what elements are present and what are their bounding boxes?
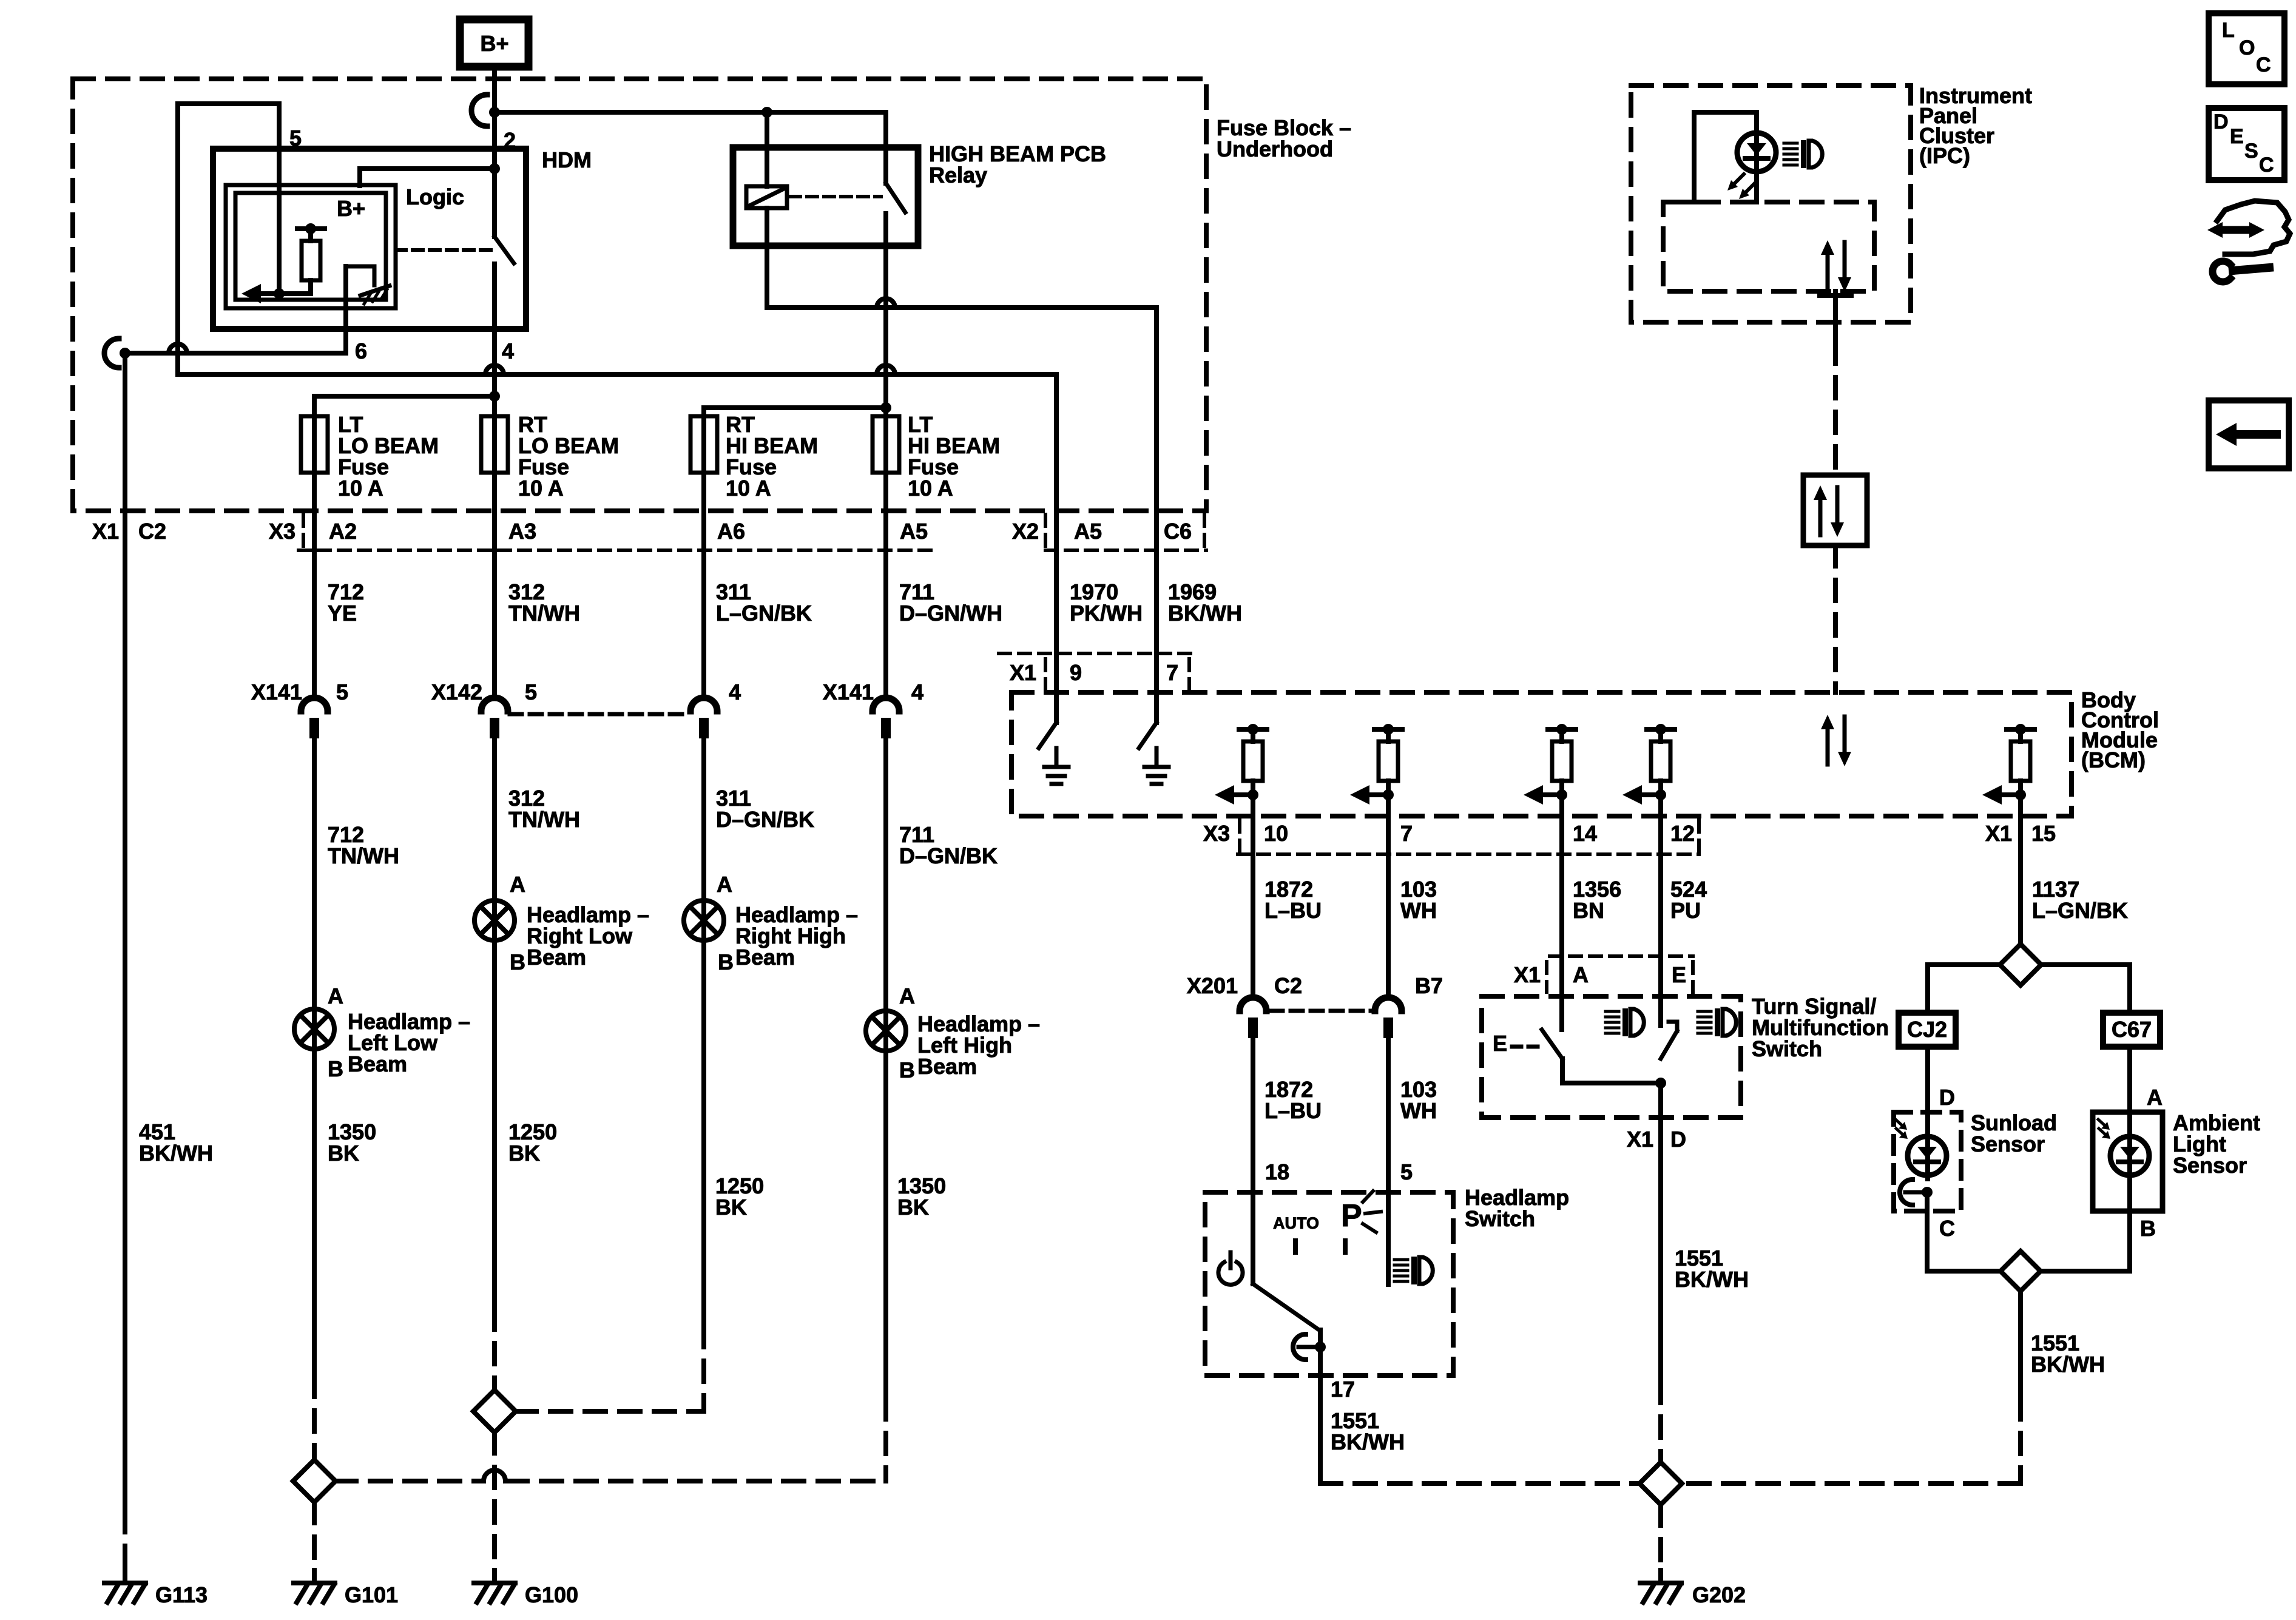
svg-text:D–GN/WH: D–GN/WH [899,601,1002,626]
IPC indicator circuit wires [1694,110,1757,115]
wire: 1356 BN [1559,795,1564,1030]
connector C67 [2103,1013,2160,1047]
dashed wire splice to G202 [1658,1505,1663,1568]
svg-text:TN/WH: TN/WH [508,601,580,626]
switch common contact arc [1293,1334,1306,1360]
svg-text:WH: WH [1400,1098,1437,1123]
fuse LT HI BEAM 10A [873,416,899,473]
label: Fuse Block - Underhood [1217,115,1351,161]
ground G113 [123,1570,127,1583]
wire: relay coil low side [765,112,769,186]
serial data arrows in BCM [1826,727,1830,764]
svg-text:5: 5 [336,680,348,704]
wire: 524 PU [1658,795,1663,1025]
svg-text:TN/WH: TN/WH [328,843,399,868]
svg-text:CJ2: CJ2 [1907,1017,1947,1042]
splice diamond 1350 [293,1460,336,1502]
svg-text:5: 5 [1400,1159,1413,1184]
svg-text:D: D [1670,1127,1686,1152]
svg-text:E: E [2230,125,2244,148]
dashed connector tie [510,712,689,717]
svg-text:5: 5 [289,126,302,150]
serial data arrows in IPC [1826,252,1830,290]
BCM driver output 1356 [1548,727,1576,732]
dashed rail 1551 to G202 splice [1320,1481,1639,1486]
wire: relay switch output to HI BEAM fuses [883,214,888,416]
dashed wire splice to G100 [492,1433,497,1568]
wire: 311 L-GN/BK [701,408,706,698]
svg-text:L–GN/BK: L–GN/BK [2032,898,2128,923]
svg-text:B: B [899,1058,915,1082]
connector X201 B7 [1375,997,1402,1011]
wire: 1970 into BCM [1054,374,1059,723]
svg-text:(IPC): (IPC) [1919,143,1970,168]
svg-text:Switch: Switch [1752,1036,1822,1061]
svg-text:(BCM): (BCM) [2081,748,2146,772]
ground G202 [1658,1570,1663,1583]
sunload internal contact arc [1900,1180,1913,1205]
MFS switch blade low [1542,1030,1562,1059]
splice diamond 1250 [473,1390,516,1433]
svg-text:15: 15 [2031,821,2056,846]
svg-text:B+: B+ [480,31,508,56]
wire: 1551 from headlamp switch [1318,1347,1323,1483]
wire labels circuit row 1 [328,579,364,626]
LED emission arrows [1733,174,1744,185]
svg-text:Switch: Switch [1465,1206,1535,1231]
ground wire labels [139,1119,213,1166]
resistor in HDM logic [297,226,325,231]
svg-text:12: 12 [1670,821,1695,846]
vehicle diagnostic icon [2225,201,2290,254]
svg-text:Beam: Beam [527,945,586,970]
wire: 103 to headlamp switch [1386,1038,1391,1284]
svg-text:A5: A5 [1074,519,1102,544]
svg-text:X142: X142 [431,680,482,704]
svg-text:S: S [2244,140,2258,163]
svg-text:D–GN/BK: D–GN/BK [899,843,998,868]
svg-text:X1: X1 [92,519,119,544]
BCM driver output 524 [1647,727,1675,732]
connector X2 strip [1044,515,1047,547]
svg-text:10 A: 10 A [726,476,771,501]
headlamp right low beam [474,900,515,940]
headlamp right high beam [684,900,724,940]
fuse RT LO BEAM 10A [481,416,508,473]
wire: pin4 branch to LO BEAM fuses [314,394,495,399]
svg-text:PK/WH: PK/WH [1070,601,1143,626]
label Headlamp Switch [1465,1185,1569,1231]
wire: C67 to ambient sensor [2127,1047,2132,1112]
IPC high-beam icon [1784,142,1797,145]
svg-text:A: A [1573,962,1589,987]
svg-text:X1: X1 [1627,1127,1653,1152]
connector X3 output strip [1238,820,1241,851]
svg-text:7: 7 [1166,660,1178,685]
node: HDM pin2 internal junction [489,163,500,174]
connector X141 pin5 [301,698,328,711]
svg-text:C: C [2256,53,2271,76]
svg-text:A: A [899,984,915,1008]
svg-text:X2: X2 [1012,519,1039,544]
MFS common wires [1560,1059,1565,1083]
svg-text:9: 9 [1070,660,1082,685]
Logic box [226,185,396,308]
dashed rail 1250 splice to RT HI [516,1409,704,1414]
svg-text:B: B [328,1056,343,1081]
svg-text:14: 14 [1573,821,1597,846]
wires: sensors to splice [1925,1211,1930,1271]
wire: col C2 451 [123,353,127,1511]
wrench icon [2212,261,2230,282]
signal ground 1970 [1055,748,1059,767]
BCM driver output 1137 [2007,727,2034,732]
BCM switch 1970 [1039,723,1056,748]
dashed wire splice to G101 [312,1502,317,1568]
wire: HDM pin 5 loop [277,104,282,294]
svg-text:5: 5 [525,680,537,704]
svg-text:BK/WH: BK/WH [2031,1352,2105,1377]
instrument panel cluster dashed box [1631,86,1911,322]
svg-text:TN/WH: TN/WH [508,807,580,832]
svg-text:B: B [2140,1216,2156,1241]
headlamp switch dashed box [1205,1192,1453,1375]
HDM module box [213,149,526,329]
svg-text:BN: BN [1573,898,1604,923]
svg-text:C67: C67 [2112,1017,2152,1042]
relay dashed link [790,195,881,198]
wire labels BCM outputs [1264,877,1322,923]
svg-text:G101: G101 [345,1582,398,1607]
wire: 103 WH [1386,795,1391,997]
svg-text:X3: X3 [1203,821,1230,846]
label Body Control Module (BCM) [2081,687,2159,772]
svg-text:P: P [1341,1198,1362,1234]
svg-text:BK: BK [715,1195,747,1220]
dashed serial data wire [1833,343,1838,475]
svg-text:A: A [2147,1085,2163,1110]
ground G101 [312,1570,317,1583]
label Instrument Panel Cluster (IPC) [1919,83,2032,168]
terminal arc at B+ junction [471,95,487,126]
svg-text:BK/WH: BK/WH [1331,1429,1405,1454]
BCM driver output 103 [1374,727,1402,732]
svg-text:D: D [2213,110,2229,133]
connector X201 C2 [1240,997,1266,1011]
svg-text:HDM: HDM [542,147,592,172]
label Turn Signal/Multifunction Switch [1752,994,1889,1061]
dashed wire MFS output to splice [1658,1382,1663,1462]
wire: 712 TN/WH to left low lamp [312,738,317,1376]
wire labels lower 1872/103 [1264,1077,1322,1123]
wire labels circuit row 2 [328,822,399,868]
svg-text:BK: BK [897,1195,929,1220]
wire label 1551 BK/WH right [1675,1246,1749,1292]
ambient photodiode [2127,1112,2132,1211]
svg-text:17: 17 [1331,1377,1355,1402]
node: relay coil tap [761,107,772,118]
svg-text:X3: X3 [269,519,295,544]
svg-text:B+: B+ [337,196,365,221]
wire: 1137 L-GN/BK [2018,795,2023,944]
fuse RT HI BEAM 10A [690,416,717,473]
svg-text:C6: C6 [1164,519,1192,544]
svg-text:6: 6 [355,339,367,363]
arrow: logic output left [262,291,279,296]
MFS low beam icon [1606,1010,1619,1013]
dashed serial data wire to BCM [1833,545,1838,692]
dashed rail 1350 splice to LT HI [336,1479,482,1483]
MFS switch blade high [1661,1031,1677,1059]
svg-text:C: C [2259,154,2274,177]
svg-text:4: 4 [502,339,514,363]
svg-text:B: B [510,950,525,974]
svg-text:10 A: 10 A [338,476,383,501]
splice diamond sensors 1551 [2001,1251,2041,1291]
headlamp switch blade [1253,1284,1319,1330]
sunload photodiode [1925,1112,1930,1179]
svg-text:A2: A2 [329,519,357,544]
serial data connector box [1803,475,1867,545]
svg-text:Logic: Logic [406,184,464,209]
svg-text:4: 4 [911,680,923,704]
svg-text:AUTO: AUTO [1273,1214,1319,1232]
svg-text:D: D [1939,1085,1955,1110]
svg-text:X1: X1 [1985,821,2012,846]
connector X142 pin5 [481,698,508,711]
wire: loop bus to A5 column [178,372,1056,377]
wire: HDM pin 4 output [492,264,497,396]
connector X3 strip [302,515,305,547]
dashed wire 1250 to splice [492,1309,497,1390]
wire: 711 D-GN/WH [883,408,888,698]
BCM switch 1969 [1139,723,1156,748]
wire: CJ2 to sunload sensor [1925,1047,1930,1112]
node: HDM logic junction [274,288,285,299]
svg-text:Beam: Beam [735,945,795,970]
dashed connector tie X201 [1271,1009,1371,1013]
wire: MFS output [1658,1083,1663,1382]
svg-text:L–BU: L–BU [1264,1098,1322,1123]
headlamp on icon [1394,1258,1408,1261]
svg-text:O: O [2239,36,2255,59]
svg-text:Beam: Beam [917,1054,977,1079]
svg-text:BK: BK [328,1141,359,1166]
inner B+ box [235,193,386,300]
wire: splice to C67 [2041,962,2130,967]
svg-text:C2: C2 [138,519,166,544]
svg-text:Relay: Relay [929,163,987,187]
svg-text:G100: G100 [525,1582,578,1607]
MFS high beam icon [1698,1010,1711,1013]
ground G100 [492,1570,497,1583]
connector X1 9/7 strip [999,652,1191,655]
svg-text:B: B [718,950,734,974]
DESC icon box [2209,108,2284,180]
fuse block underhood dashed box [73,79,1206,511]
svg-text:B7: B7 [1415,973,1443,998]
turn signal multifunction switch dashed box [1482,996,1741,1118]
wire: HDM pin 6 internal ground loop [346,265,374,269]
svg-text:BK/WH: BK/WH [139,1141,213,1166]
sunload sensor dashed box [1894,1112,1961,1211]
svg-text:YE: YE [328,601,357,626]
wire: 1551 BK/WH sensors [2018,1291,2023,1399]
svg-text:A5: A5 [900,519,928,544]
splice diamond 1551 [1639,1462,1682,1505]
svg-text:10 A: 10 A [908,476,953,501]
splice diamond 1137 [2000,944,2041,985]
svg-text:G202: G202 [1692,1582,1746,1607]
B+ power terminal [460,19,528,67]
signal ground 1969 [1155,748,1159,767]
relay coil [746,186,787,208]
svg-text:Sensor: Sensor [2173,1153,2247,1178]
svg-text:WH: WH [1400,898,1437,923]
wire: 1969 column down [1154,308,1159,723]
svg-text:X141: X141 [823,680,874,704]
svg-text:L–GN/BK: L–GN/BK [716,601,812,626]
svg-text:A: A [328,984,343,1008]
IPC serial stub [1820,293,1851,298]
wire: 311 D-GN/BK to right high lamp [701,738,706,1326]
svg-text:BK/WH: BK/WH [1168,601,1242,626]
svg-text:10: 10 [1264,821,1288,846]
power off icon [1218,1262,1243,1284]
wire: 312 TN/WH [492,396,497,698]
wire: 1872 to headlamp switch [1251,1038,1255,1284]
svg-text:C2: C2 [1274,973,1302,998]
svg-text:X141: X141 [251,680,302,704]
svg-text:BK: BK [508,1141,540,1166]
signal ground in HDM [360,286,390,295]
wire: 712 YE [312,396,317,698]
wire: 1872 L-BU [1251,795,1255,997]
fuse LT LO BEAM 10A [301,416,328,473]
svg-text:L: L [2222,19,2235,42]
svg-text:X1: X1 [1010,660,1036,685]
IPC high-beam indicator LED [1737,133,1776,172]
dashed wire to G202 rail [2018,1399,2023,1483]
svg-text:L–BU: L–BU [1264,898,1322,923]
connector X1 A/E strip [1550,954,1693,958]
svg-text:Sensor: Sensor [1971,1132,2045,1156]
dashed wire col C2 to G113 [123,1511,127,1568]
body control module dashed box [1011,692,2071,816]
svg-text:BK/WH: BK/WH [1675,1267,1749,1292]
relay switch blade [883,112,888,183]
wire: B+ feed down to HDM pin 2 [492,67,497,169]
label HIGH BEAM PCB Relay [929,141,1106,187]
IPC inner dashed box [1663,202,1874,291]
svg-text:G113: G113 [155,1582,208,1607]
HDM switch blade [492,169,497,237]
HDM control dashed link [396,248,496,252]
svg-text:10 A: 10 A [518,476,564,501]
svg-text:18: 18 [1265,1159,1289,1184]
svg-text:7: 7 [1400,821,1413,846]
HIGH BEAM PCB relay box [733,147,918,246]
svg-text:E: E [1672,962,1686,987]
connector pin4 [690,698,717,711]
svg-text:A3: A3 [508,519,536,544]
MFS high contact [1669,1020,1677,1024]
svg-text:Underhood: Underhood [1217,137,1333,161]
LOC icon box [2209,13,2284,84]
svg-text:C: C [1939,1216,1955,1241]
node: B+ junction [489,107,500,118]
svg-text:X201: X201 [1187,973,1238,998]
svg-text:D–GN/BK: D–GN/BK [716,807,814,832]
svg-text:A6: A6 [717,519,745,544]
wire: 312 TN/WH to right low lamp [492,738,497,1309]
connector CJ2 [1899,1013,1956,1047]
wire: left branch to C2 [104,339,119,368]
wire: logic feed from pin2 node [360,166,495,171]
svg-text:PU: PU [1670,898,1701,923]
wire: B+ bus to relay [495,110,886,115]
svg-text:E: E [1493,1031,1507,1056]
svg-text:A: A [510,872,525,897]
BCM driver output 1872 [1239,727,1267,732]
svg-text:Beam: Beam [348,1051,407,1076]
headlamp left low beam [294,1009,334,1049]
svg-text:4: 4 [729,680,741,704]
dashed wire 1350 to splice [312,1376,317,1460]
headlamp left high beam [866,1011,906,1051]
wire: splice to CJ2 [1928,962,2000,967]
ambient light sensor box [2093,1112,2163,1211]
back arrow icon box [2209,400,2289,468]
connector X141 pin4 [873,698,899,711]
svg-text:A: A [717,872,732,897]
svg-text:X1: X1 [1514,962,1541,987]
wire: 711 D-GN/BK to left high lamp [883,738,888,1399]
